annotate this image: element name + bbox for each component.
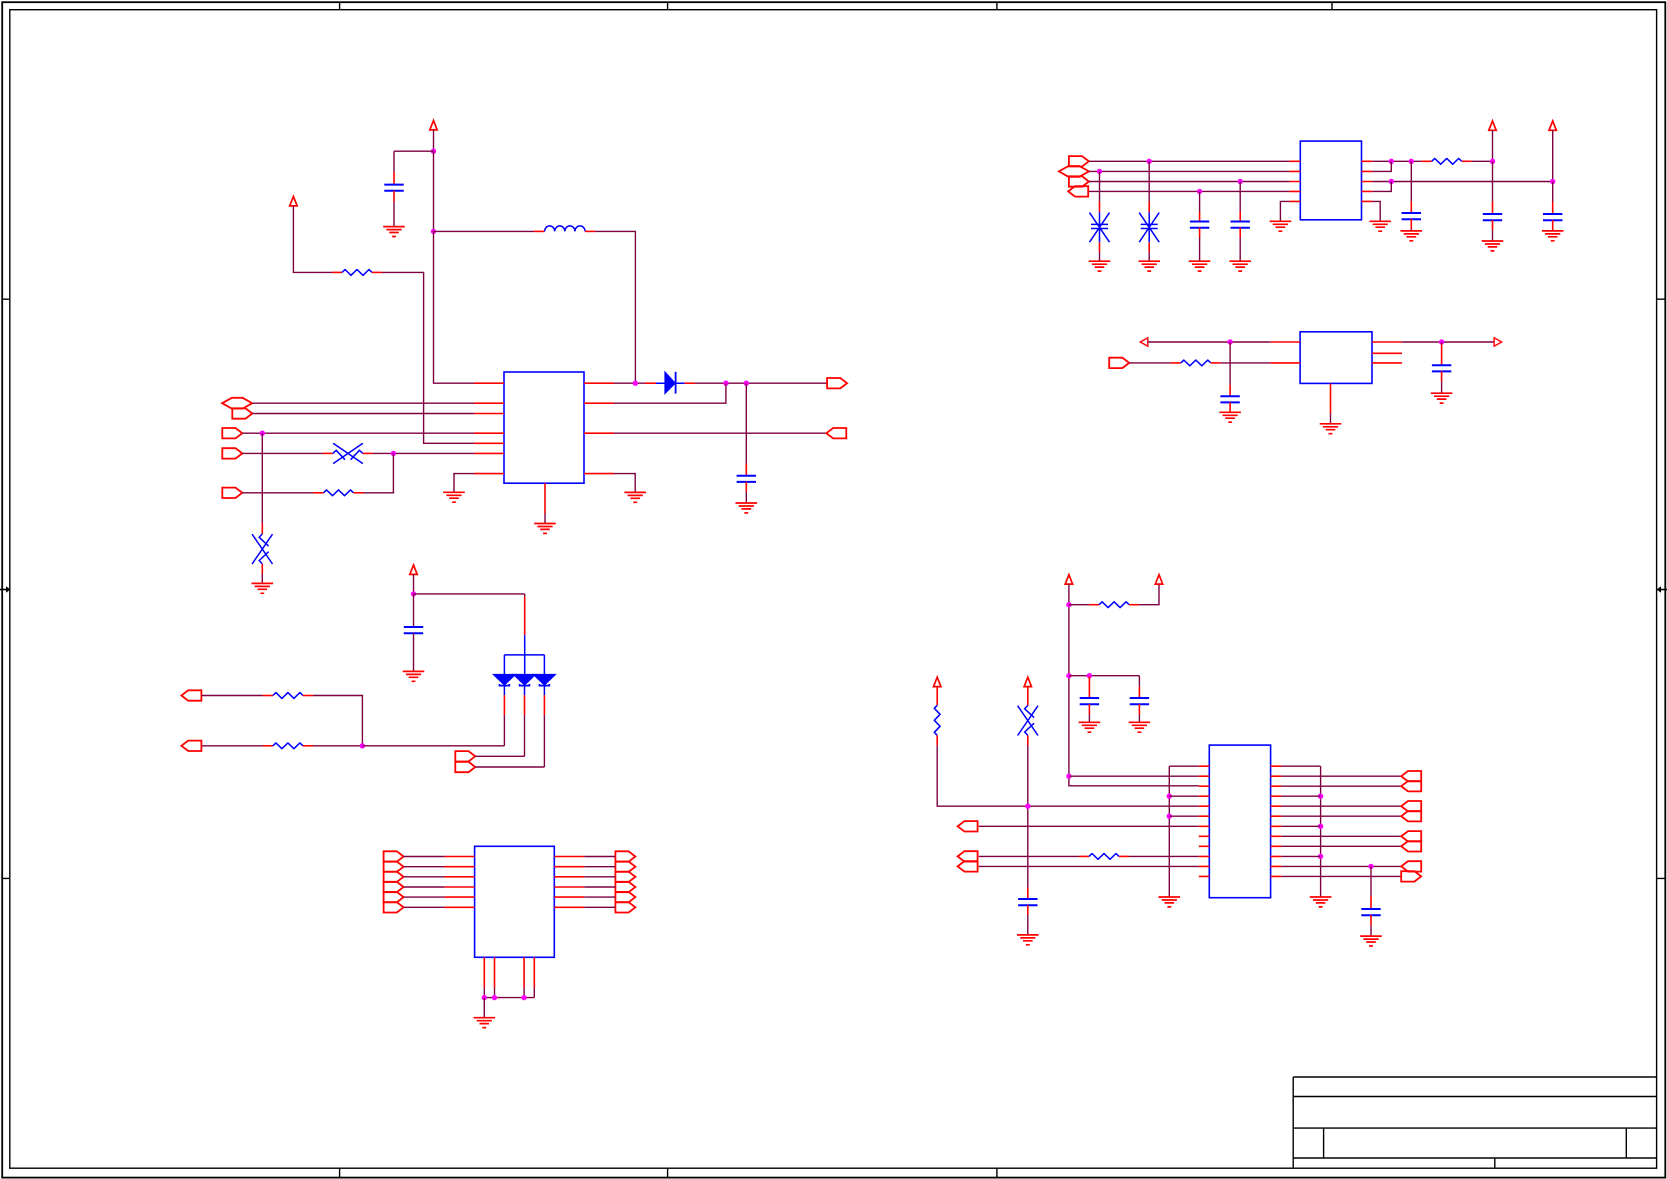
wire D4 down bbox=[543, 715, 545, 767]
ground bbox=[1310, 897, 1332, 907]
wire node to C3 bbox=[1199, 191, 1201, 211]
ground bbox=[1360, 936, 1382, 946]
wire U5 to port bbox=[1281, 835, 1401, 837]
wire node to C9 bbox=[1441, 342, 1443, 345]
port input bbox=[1401, 801, 1421, 811]
wire C10 to ground bbox=[413, 633, 415, 671]
power VCC P2 bbox=[290, 197, 297, 206]
wire node to R7 bbox=[1069, 604, 1089, 606]
wire C12 to ground bbox=[1138, 714, 1140, 722]
capacitor C8 bbox=[1220, 396, 1239, 402]
wire port to U1 pin 4 bbox=[242, 432, 474, 434]
wire port to TVS1 bbox=[242, 452, 322, 454]
U1 pins right bbox=[584, 383, 614, 473]
title block bbox=[1293, 1077, 1656, 1168]
wire port to R6 bbox=[202, 745, 263, 747]
wire U1 pin 10 to port bbox=[614, 432, 826, 434]
resistor R2 bbox=[324, 490, 354, 496]
wire port to U5 pin 11 bbox=[979, 865, 1199, 867]
capacitor C6 bbox=[1483, 214, 1502, 220]
R8 bottom lead bbox=[936, 735, 938, 745]
port output bbox=[615, 872, 635, 882]
capacitor C13 bbox=[1018, 899, 1037, 905]
capacitor C4 bbox=[1231, 222, 1250, 228]
wire U5 to port bbox=[1281, 785, 1401, 787]
TVS5 bottom lead bbox=[1027, 735, 1029, 745]
R4 left lead bbox=[1171, 362, 1181, 364]
wire to C1 bbox=[394, 151, 434, 172]
junction bbox=[1097, 169, 1102, 174]
ground bbox=[1017, 935, 1039, 945]
wire R2 to node bbox=[364, 453, 394, 492]
wire port to U2 pin 3 bbox=[1089, 181, 1290, 183]
diode bus bbox=[504, 635, 544, 675]
wire to L1 bbox=[434, 230, 535, 232]
port output bbox=[384, 862, 404, 872]
wire U3 pin out to arrow bbox=[1402, 341, 1494, 343]
wire node to TVS2 bbox=[261, 433, 263, 523]
port input bbox=[181, 741, 201, 751]
U5 pins left bbox=[1199, 766, 1210, 876]
ground bbox=[443, 492, 465, 502]
R3 right lead bbox=[1462, 160, 1472, 162]
junction bbox=[1368, 864, 1373, 869]
wire port to R9 bbox=[979, 855, 1079, 857]
C5 top lead bbox=[1410, 202, 1412, 214]
power VCC P6 bbox=[1065, 575, 1072, 584]
wire rail to U5 pin 1 bbox=[1169, 765, 1199, 767]
wire C1 to ground bbox=[393, 202, 395, 226]
wire port to D3 bbox=[475, 755, 524, 757]
junction bbox=[492, 995, 497, 1000]
wire D2 down bbox=[503, 715, 505, 746]
wire VCC to node bbox=[433, 130, 435, 151]
TVS5 top lead bbox=[1027, 687, 1029, 706]
junction bbox=[1227, 339, 1232, 344]
wire rail to U5 pin 4 bbox=[1169, 795, 1199, 797]
TVS4 bottom lead bbox=[1148, 242, 1150, 252]
resistor R4 bbox=[1181, 360, 1211, 366]
U1 pin bottom bbox=[544, 483, 546, 513]
junction bbox=[1167, 794, 1172, 799]
inductor L1 bbox=[545, 226, 585, 232]
wire node to TVS3 bbox=[1099, 171, 1101, 201]
port input bbox=[1401, 811, 1421, 821]
IC U2 bbox=[1300, 141, 1361, 220]
ground bbox=[251, 583, 273, 593]
port output bbox=[1401, 871, 1421, 881]
wire node to C2 bbox=[745, 383, 747, 463]
ground bbox=[1229, 261, 1251, 271]
IC U3 bbox=[1300, 332, 1372, 384]
wire node to C7 bbox=[1552, 182, 1554, 202]
R9 right lead bbox=[1119, 855, 1129, 857]
wire U1 pin 7 to ground bbox=[454, 474, 474, 493]
wire U4 to port bbox=[584, 866, 615, 868]
wire TVS5 to C13 bbox=[1027, 745, 1029, 887]
capacitor C10 bbox=[404, 627, 423, 633]
wire U1 right pin to ground bbox=[614, 474, 635, 493]
junction bbox=[1147, 159, 1152, 164]
TVS2 bottom lead bbox=[261, 564, 263, 574]
junction bbox=[1238, 179, 1243, 184]
C8 bottom lead bbox=[1229, 402, 1231, 412]
junction bbox=[1318, 794, 1323, 799]
TVS diode D6 bbox=[252, 534, 272, 564]
wire C5 to ground bbox=[1410, 229, 1412, 231]
C13 bottom lead bbox=[1027, 905, 1029, 915]
U2 pins left bbox=[1290, 161, 1301, 201]
wire port to U5 pin 7 bbox=[979, 825, 1199, 827]
L1 right lead bbox=[585, 230, 595, 232]
R7 left lead bbox=[1089, 604, 1099, 606]
L1 left lead bbox=[534, 230, 545, 232]
wire C4 to ground bbox=[1239, 238, 1241, 262]
wire R1 to U1 pin 5 bbox=[382, 272, 474, 443]
ground bbox=[1369, 221, 1391, 231]
wire port to U4 bbox=[404, 876, 445, 878]
power VCC P8 bbox=[934, 677, 941, 686]
junction bbox=[1066, 774, 1071, 779]
port input bbox=[958, 851, 978, 861]
wire port to U2 pin 4 bbox=[1089, 190, 1290, 192]
ground bbox=[474, 1018, 496, 1028]
wire port to U4 bbox=[404, 886, 445, 888]
wire U2 pin 8 bus bbox=[1372, 181, 1553, 183]
ground bbox=[1159, 897, 1181, 907]
U2 pins right bbox=[1362, 161, 1373, 201]
wire U5 pin 13 to rail bbox=[1281, 765, 1320, 767]
port input bbox=[958, 861, 978, 871]
capacitor C3 bbox=[1190, 222, 1209, 228]
C14 bottom lead bbox=[1370, 915, 1372, 925]
ground bbox=[534, 524, 556, 534]
wire port to R4 bbox=[1129, 362, 1171, 364]
TVS diode D9 bbox=[1018, 705, 1038, 735]
ground bbox=[383, 227, 405, 237]
capacitor C2 bbox=[737, 476, 756, 482]
wire C6 to ground bbox=[1492, 230, 1494, 241]
R7 right lead bbox=[1129, 604, 1139, 606]
ground bbox=[624, 492, 646, 502]
port bidirectional bbox=[1059, 166, 1089, 177]
junction bbox=[260, 431, 265, 436]
wire R5 to node bbox=[313, 696, 363, 746]
ground bbox=[1270, 221, 1292, 231]
C6 bottom lead bbox=[1492, 220, 1494, 230]
wire node to C8 bbox=[1229, 342, 1231, 385]
wire U5 to port bbox=[1281, 805, 1401, 807]
capacitor C9 bbox=[1432, 365, 1451, 371]
D1 cathode lead bbox=[685, 382, 695, 384]
C12 bottom lead bbox=[1138, 704, 1140, 714]
junction bbox=[1025, 804, 1030, 809]
ground bbox=[1542, 231, 1564, 241]
junction bbox=[1550, 179, 1555, 184]
wire TVS2 to ground bbox=[261, 574, 263, 584]
wire U5 pin 16 to rail bbox=[1281, 795, 1320, 797]
wire C2 to ground bbox=[745, 492, 747, 503]
port output bbox=[455, 762, 475, 772]
wire R3 to VCC node bbox=[1472, 160, 1493, 162]
wire R9 to U5 pin 10 bbox=[1129, 855, 1199, 857]
power VCC P7 bbox=[1155, 575, 1162, 584]
junction bbox=[391, 451, 396, 456]
wire to C12 bbox=[1138, 676, 1140, 687]
port output bbox=[1109, 358, 1129, 368]
diode D3 bbox=[514, 675, 535, 696]
C7 top lead bbox=[1552, 202, 1554, 215]
TVS3 top lead bbox=[1099, 202, 1101, 213]
wire port to U4 bbox=[404, 906, 445, 908]
R6 right lead bbox=[303, 745, 313, 747]
port input bbox=[1401, 861, 1421, 871]
R4 right lead bbox=[1211, 362, 1221, 364]
diode D1 bbox=[656, 372, 685, 394]
wire rail to U5 pin 6 bbox=[1169, 815, 1199, 817]
wire U4 to port bbox=[584, 906, 615, 908]
net arrow input bbox=[1140, 338, 1148, 346]
wire U4 to port bbox=[584, 886, 615, 888]
junction bbox=[1087, 673, 1092, 678]
C1 bottom lead bbox=[393, 191, 395, 202]
resistor R3 bbox=[1432, 158, 1462, 164]
wire TVS1 to U1 pin 6 bbox=[373, 452, 474, 454]
C14 top lead bbox=[1370, 896, 1372, 909]
power VCC P9 bbox=[1024, 677, 1031, 686]
wire bbox=[524, 594, 526, 597]
wire arrow to U3 pin 1 bbox=[1148, 341, 1271, 343]
capacitor C7 bbox=[1543, 214, 1562, 220]
resistor R5 bbox=[273, 693, 303, 699]
wire U4 to port bbox=[584, 856, 615, 858]
C7 bottom lead bbox=[1552, 220, 1554, 231]
wire U2 pin 5 to ground bbox=[1280, 201, 1289, 221]
U3 pin bottom bbox=[1330, 383, 1332, 413]
port output bbox=[384, 902, 404, 912]
wire U5 pin 24 to port bbox=[1281, 875, 1401, 877]
wire U5 to port bbox=[1281, 775, 1401, 777]
wire node to C5 bbox=[1410, 161, 1412, 201]
R5 left lead bbox=[263, 695, 273, 697]
U4 pins right bbox=[554, 857, 584, 908]
port input bbox=[1401, 771, 1421, 781]
R3 left lead bbox=[1422, 160, 1432, 162]
wire D1 to port bbox=[695, 382, 827, 384]
ground bbox=[403, 671, 425, 681]
resistor R6 bbox=[273, 743, 303, 749]
power VCC P4 bbox=[1549, 121, 1556, 130]
U4 pins left bbox=[445, 857, 475, 908]
port bidirectional bbox=[222, 398, 252, 409]
wire C11 to ground bbox=[1088, 714, 1090, 722]
port output bbox=[222, 488, 242, 498]
TVS3 bottom lead bbox=[1099, 242, 1101, 252]
ground bbox=[1219, 412, 1241, 422]
port output bbox=[615, 882, 635, 892]
R2 right lead bbox=[354, 492, 364, 494]
TVS4 top lead bbox=[1148, 202, 1150, 213]
junction bbox=[1389, 159, 1394, 164]
wire U3 ground pin bbox=[1330, 413, 1332, 423]
C3 top lead bbox=[1199, 212, 1201, 222]
R1 left lead bbox=[332, 271, 342, 273]
C9 bottom lead bbox=[1441, 371, 1443, 381]
wire node to U5 pin 2 bbox=[1069, 775, 1199, 777]
D3 cathode lead bbox=[524, 695, 526, 715]
port output bbox=[222, 428, 242, 438]
wire node to TVS4 bbox=[1148, 161, 1150, 201]
R5 right lead bbox=[303, 695, 313, 697]
C6 top lead bbox=[1492, 202, 1494, 215]
wire port to U2 pin 2 bbox=[1089, 170, 1290, 172]
C4 bottom lead bbox=[1239, 228, 1241, 238]
junction bbox=[1409, 159, 1414, 164]
wire U2 pin 10 to ground bbox=[1372, 201, 1380, 221]
wire R4 to U3 pin 2 bbox=[1221, 362, 1271, 364]
wire L1 to diode node bbox=[595, 231, 635, 383]
resistor R8 bbox=[934, 705, 940, 735]
D1 anode lead bbox=[645, 382, 656, 384]
TVS1 left lead bbox=[323, 452, 333, 454]
U3 pins left bbox=[1270, 342, 1300, 363]
port output bbox=[615, 892, 635, 902]
ground bbox=[736, 503, 758, 513]
wire U4 to port bbox=[584, 896, 615, 898]
R1 right lead bbox=[372, 271, 382, 273]
wire VCC rail to U5 pin 3 bbox=[1069, 584, 1199, 786]
wire R7 to VCC bbox=[1139, 584, 1159, 605]
diode D2 bbox=[494, 675, 515, 696]
junction bbox=[1066, 673, 1071, 678]
wire C14 to ground bbox=[1370, 925, 1372, 936]
port output bbox=[384, 851, 404, 861]
R6 left lead bbox=[263, 745, 273, 747]
wire U5 pin 23 to port bbox=[1281, 865, 1401, 867]
wire TVS4 to ground bbox=[1148, 252, 1150, 261]
wire node to U1 pin 9 bbox=[614, 383, 726, 403]
C3 bottom lead bbox=[1199, 228, 1201, 238]
port input bbox=[1401, 781, 1421, 791]
port output bbox=[827, 378, 847, 388]
ground bbox=[1089, 261, 1111, 271]
wire node to D2 bbox=[362, 745, 504, 747]
TVS1 right lead bbox=[363, 452, 373, 454]
ground bbox=[1401, 231, 1423, 241]
R2 left lead bbox=[314, 492, 324, 494]
wire port to U2 pin 1 bbox=[1089, 160, 1290, 162]
TVS2 top lead bbox=[261, 523, 263, 534]
wire VCC down bbox=[1552, 130, 1554, 181]
D2 cathode lead bbox=[503, 695, 505, 715]
power VCC P1 bbox=[430, 121, 437, 130]
wire bottom pins bbox=[484, 988, 534, 998]
wire node to diode bus bbox=[414, 593, 525, 595]
junction bbox=[1197, 189, 1202, 194]
TVS diode D7 bbox=[1090, 212, 1110, 242]
resistor R9 bbox=[1089, 854, 1119, 860]
wire port to U1 pin 2 bbox=[252, 402, 474, 404]
wire U4 to port bbox=[584, 876, 615, 878]
junction bbox=[521, 995, 526, 1000]
wire R8 to U5 pin 5 bbox=[937, 745, 1199, 806]
port input bbox=[958, 821, 978, 831]
U1 pins left bbox=[474, 383, 504, 473]
wire U5 pin 22 to rail bbox=[1281, 855, 1320, 857]
frame centering arrow left bbox=[0, 589, 6, 591]
C13 top lead bbox=[1027, 888, 1029, 900]
wire node to C14 bbox=[1370, 866, 1372, 896]
wire C3 to ground bbox=[1199, 238, 1201, 262]
junction bbox=[1439, 339, 1444, 344]
wire U5 left ground rail bbox=[1168, 766, 1170, 897]
wire node to U2 pin 9 bbox=[1372, 182, 1391, 192]
junction bbox=[1389, 179, 1394, 184]
TVS diode D5 bbox=[333, 443, 363, 463]
wire U5 to port bbox=[1281, 815, 1401, 817]
capacitor C5 bbox=[1402, 213, 1421, 219]
wire ground bus bbox=[484, 997, 534, 999]
D4 cathode lead bbox=[543, 695, 545, 715]
C5 bottom lead bbox=[1410, 219, 1412, 229]
wire R6 to node bbox=[313, 745, 363, 747]
frame centering arrow right bbox=[1661, 589, 1667, 591]
wire U5 to port bbox=[1281, 845, 1401, 847]
wire VCC to R1 bbox=[293, 206, 332, 273]
junction bbox=[1318, 824, 1323, 829]
wire U5 pin 19 to rail bbox=[1281, 825, 1320, 827]
port output bbox=[1069, 176, 1089, 186]
power VCC P5 bbox=[410, 565, 417, 574]
IC U5 bbox=[1209, 745, 1270, 898]
wire port to R2 bbox=[242, 492, 313, 494]
ground bbox=[1138, 261, 1160, 271]
wire bbox=[433, 151, 435, 231]
wire port to D4 bbox=[475, 766, 544, 768]
port input bbox=[1068, 186, 1088, 196]
C1 top lead bbox=[393, 172, 395, 185]
wire port to R5 bbox=[202, 695, 263, 697]
wire node to C10 bbox=[413, 594, 415, 627]
IC U1 bbox=[504, 372, 584, 483]
resistor R1 bbox=[342, 270, 372, 276]
C8 top lead bbox=[1229, 385, 1231, 396]
wire bus to ground bbox=[483, 998, 485, 1018]
net arrow output bbox=[1494, 338, 1502, 346]
IC U4 bbox=[475, 846, 555, 957]
port output bbox=[384, 872, 404, 882]
wire D3 down bbox=[524, 715, 526, 756]
port input bbox=[826, 428, 846, 438]
capacitor C11 bbox=[1080, 698, 1099, 704]
junction bbox=[1490, 159, 1495, 164]
wire port to U1 pin 3 bbox=[252, 413, 474, 415]
C2 top lead bbox=[745, 464, 747, 476]
capacitor C1 bbox=[384, 185, 403, 191]
port output bbox=[615, 862, 635, 872]
diode bus lead bbox=[524, 597, 526, 636]
ground bbox=[1320, 424, 1342, 434]
power VCC P3 bbox=[1489, 121, 1496, 130]
wire node to U2 pin 7 bbox=[1372, 161, 1391, 171]
wire C13 to ground bbox=[1027, 915, 1029, 935]
R9 left lead bbox=[1079, 855, 1089, 857]
wire U1 bottom pin to ground bbox=[544, 514, 546, 524]
diode D4 bbox=[534, 675, 555, 696]
C11 top lead bbox=[1088, 676, 1090, 698]
junction bbox=[723, 381, 728, 386]
junction bbox=[1066, 602, 1071, 607]
